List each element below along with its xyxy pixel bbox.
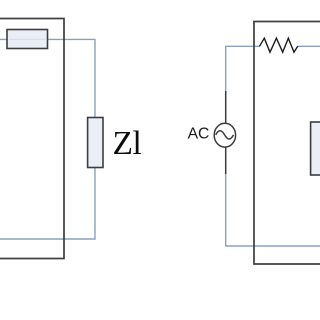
- svg-text:AC: AC: [188, 126, 210, 143]
- svg-text:Zl: Zl: [113, 125, 142, 162]
